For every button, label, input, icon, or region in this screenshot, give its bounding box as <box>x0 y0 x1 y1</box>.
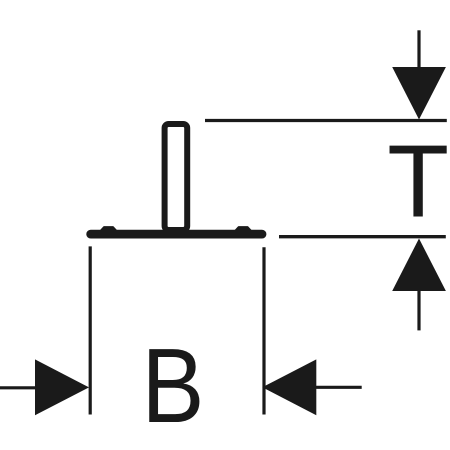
dimension B: left (right-pointing) arrowhead <box>35 359 89 415</box>
dimension T: upper extension line (top of stem level) <box>205 119 447 122</box>
dimension B: left extension line <box>89 246 92 414</box>
dimension B: left arrow leader line <box>0 386 40 389</box>
dimension T: up arrowhead <box>392 239 446 292</box>
part: right bump on base plate <box>235 227 252 231</box>
dimension B: right (left-pointing) arrowhead <box>262 359 316 415</box>
dimension B: right arrow leader line <box>315 386 362 389</box>
dimension T: down arrow leader line <box>417 30 420 80</box>
part: left bump on base plate <box>100 227 117 231</box>
svg-text:T: T <box>387 123 449 238</box>
dimension T: lower extension line (base plate level) <box>279 235 446 238</box>
part: horizontal base plate <box>91 230 262 239</box>
part: vertical stem (rounded rectangle outline) <box>165 124 188 230</box>
dimension T: up arrow leader line <box>417 285 420 330</box>
dimension B: right extension line <box>262 247 265 414</box>
svg-text:B: B <box>142 327 205 445</box>
dimension T: down arrowhead <box>392 67 446 120</box>
